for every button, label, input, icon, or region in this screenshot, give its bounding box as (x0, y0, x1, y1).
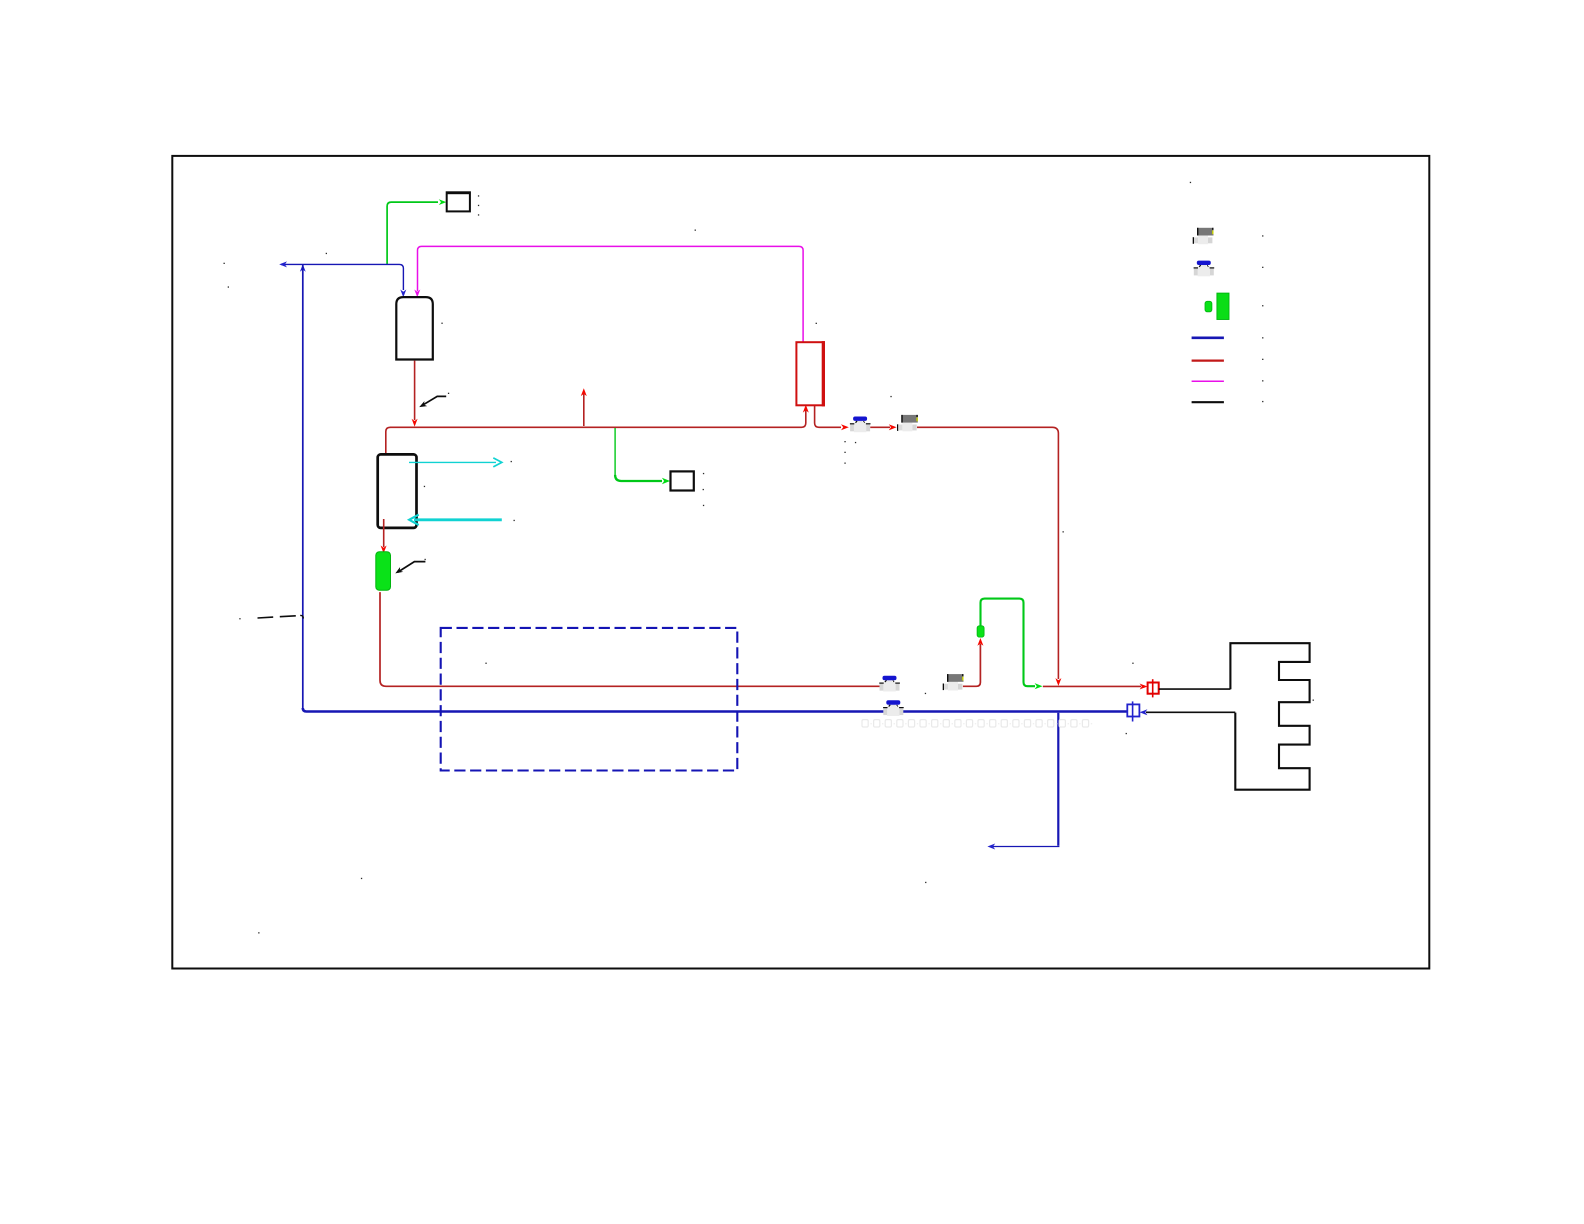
pipe: blue top supply into vessel V1 (279, 261, 406, 297)
vessel V2 (378, 454, 417, 528)
annotation dashed leader to blue pipe (258, 615, 304, 618)
pipe: green line to expansion box B1 (387, 199, 446, 264)
connector RC (red union to building) (1148, 679, 1159, 697)
pipe: black building to connector BC (1140, 709, 1236, 715)
pipe: magenta from V1 to heater H1 (414, 246, 803, 342)
pipe: red outlet of V1 down to main line (412, 361, 418, 427)
legend: motor valve symbol (1193, 228, 1214, 244)
pump P2 (green small) (977, 626, 984, 637)
legend: pump symbols (green) (1205, 293, 1229, 319)
pipe: red branch corner down into vessel V2 (383, 427, 391, 462)
pipe: red bottom return from P1 (380, 592, 880, 686)
valve BV3 (ball valve, blue return line) (883, 700, 904, 716)
pipe: blue bottom branch with left arrow (987, 713, 1059, 850)
annotation arrow A2 (395, 562, 425, 574)
dashed boundary box (441, 628, 738, 771)
annotation arrow A1 (419, 396, 446, 407)
pipe: red branch up (vent) (581, 388, 587, 426)
pipe: red up into pump P2 (963, 638, 984, 686)
legend: blue line sample (1192, 336, 1224, 339)
pipe: red segment to connector RC (1043, 684, 1148, 690)
legend: red line sample (1192, 359, 1224, 361)
connector BC (blue union from building) (1127, 701, 1139, 721)
valve MV2 (motor valve, bottom red line) (943, 674, 964, 690)
legend: ball valve symbol (1194, 261, 1215, 277)
valve BV2 (ball valve, bottom red line) (879, 676, 900, 692)
arrow: cyan thick into V2 (409, 515, 502, 525)
pipe: red supply main horizontal (390, 405, 1061, 686)
legend: magenta line sample (1192, 380, 1224, 382)
legend: black line sample (1192, 401, 1224, 403)
heater H1 (red box) (796, 341, 825, 406)
pipe: green branch to box B2 (615, 428, 670, 484)
box B2 (indicator mid) (671, 471, 694, 490)
pipe: blue return main (left vertical + bottom horizontal) (300, 264, 1127, 711)
valve MV1 (motor valve, supply line) (897, 415, 918, 431)
ghost text row (faint) (433, 720, 1092, 728)
box B1 (indicator top) (446, 192, 471, 212)
vessel V1 (396, 297, 433, 359)
valve BV1 (ball valve, supply line) (850, 417, 871, 433)
pipe: red V2 to pump P1 (381, 519, 387, 553)
pipe: black RC to building (1159, 688, 1231, 690)
pipe: green loop from P2 (981, 599, 1043, 690)
stray label dots (224, 182, 1314, 934)
pump P1 (green) (376, 552, 391, 591)
building (heat load, castellated outline) (1230, 643, 1309, 790)
arrow: cyan thin out of V2 (409, 458, 502, 467)
